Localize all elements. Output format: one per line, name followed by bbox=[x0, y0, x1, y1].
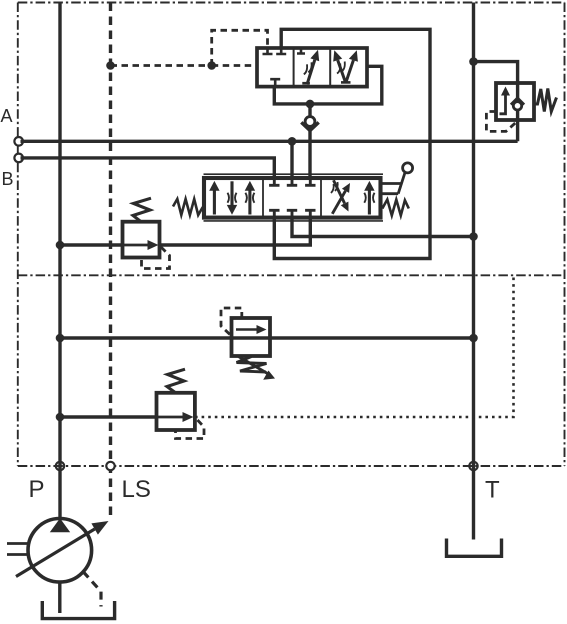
wire T line vertical bbox=[472, 3, 475, 540]
reducing valve PV3 arrow bbox=[183, 412, 194, 422]
relief valve RV pilot line bbox=[486, 112, 515, 132]
wire check valve to main valve port 3 bbox=[308, 104, 311, 179]
pilot valve V1 blocked port b1 bbox=[297, 49, 305, 54]
main valve V2 port stubs bottom bbox=[269, 210, 315, 216]
pilot valve V1 cell c throttle ticks bbox=[337, 62, 345, 74]
main valve V2 cell c cross arrow down bbox=[334, 180, 345, 203]
main valve V2 lever knob bbox=[403, 163, 413, 173]
reducing valve PV2 pilot line bbox=[221, 308, 242, 337]
pilot line junction loop to pilot valve top port bbox=[212, 30, 268, 65]
compensator CP1 spring bbox=[133, 198, 151, 222]
port LS circle bbox=[106, 462, 114, 470]
main valve V2 left spring bbox=[173, 199, 203, 215]
reducing valve PV3 body bbox=[157, 393, 195, 430]
wire pilot valve bottom loop bbox=[274, 66, 382, 104]
port A circle bbox=[14, 137, 23, 146]
node pilot branch junction bbox=[207, 61, 216, 70]
port B circle bbox=[14, 154, 23, 163]
boundary right edge bbox=[564, 3, 566, 467]
pilot valve V1 blocked port a2 bbox=[276, 49, 286, 54]
pump PU case drain line bbox=[83, 572, 101, 607]
main valve V2 cell c arrow up bbox=[368, 190, 371, 215]
main valve V2 right spring bbox=[382, 200, 409, 216]
tank symbol T side bbox=[447, 539, 502, 557]
tank symbol pump side bbox=[42, 601, 114, 619]
wire pilot valve top port to main valve bottom port 1 bbox=[274, 29, 430, 258]
compensator CP1 through line bbox=[123, 244, 150, 247]
pump PU outflow triangle bbox=[50, 518, 70, 532]
main valve V2 cell a orifice marks around arrow 2 bbox=[228, 193, 237, 203]
pilot line junction to pilot valve left end bbox=[212, 64, 258, 67]
node pilot supply junction bbox=[306, 100, 315, 109]
boundary top edge bbox=[18, 2, 565, 4]
wire reducing valve 3 output dotted bbox=[195, 278, 514, 418]
node A line to port 2 junction bbox=[288, 137, 297, 146]
wire LS line vertical (pilot) bbox=[109, 3, 112, 517]
relief valve RV spring bbox=[534, 89, 557, 112]
node T relief branch junction bbox=[469, 57, 478, 66]
boundary bottom edge bbox=[18, 465, 565, 467]
reducing valve PV3 pilot line bbox=[176, 420, 205, 439]
svg-text:P: P bbox=[29, 476, 45, 503]
main valve V2 lever arm bbox=[398, 173, 405, 194]
reducing valve PV3 through line bbox=[157, 416, 189, 419]
pilot valve V1 cell c V-arrows bbox=[338, 60, 354, 83]
reducing valve PV3 spring bbox=[167, 369, 185, 393]
node P to valve 2 junction bbox=[56, 334, 65, 343]
main valve V2 lever link lines bbox=[382, 184, 401, 194]
main valve V2 body bbox=[204, 178, 381, 218]
main valve V2 proportional stroke lines bbox=[204, 174, 384, 221]
port P circle bbox=[56, 462, 64, 470]
svg-text:A: A bbox=[1, 106, 13, 126]
svg-text:B: B bbox=[2, 169, 14, 189]
pilot valve V1 cell dividers bbox=[294, 48, 331, 87]
relief valve RV check seat bbox=[511, 98, 524, 105]
compensator CP1 body bbox=[123, 222, 160, 258]
reducing valve PV2 body bbox=[232, 318, 271, 356]
wire B line to main valve port 1 bbox=[21, 158, 275, 179]
pilot valve V1 blocked port a3 bottom bbox=[270, 79, 280, 85]
wire P to compensator 1 bbox=[60, 243, 123, 246]
wire A line to main valve port 2 bbox=[290, 141, 293, 179]
pump PU suction line bbox=[58, 581, 61, 613]
pilot valve V1 cell b arrow bbox=[307, 60, 315, 85]
node P to valve 3 junction bbox=[56, 413, 65, 422]
relief valve RV internal arrow bbox=[500, 93, 506, 114]
wire compensator 1 to main valve bottom port 3 bbox=[160, 217, 311, 245]
reducing valve PV2 arrow bbox=[236, 328, 259, 331]
main valve V2 cell dividers bbox=[263, 178, 321, 218]
main valve V2 port stubs top bbox=[269, 179, 315, 185]
main valve V2 cell c throttle ticks bbox=[331, 182, 338, 193]
pilot line LS to junction bbox=[111, 64, 212, 67]
node LS pilot junction bbox=[106, 61, 115, 70]
node T return junction bbox=[469, 232, 478, 241]
pilot valve V1 body bbox=[257, 48, 367, 87]
compensator CP1 pilot line bbox=[142, 247, 170, 269]
relief valve RV check ball bbox=[513, 102, 521, 110]
pilot valve V1 cell b throttle ticks bbox=[304, 62, 312, 74]
check valve CV1 ball bbox=[305, 117, 315, 127]
compensator CP1 arrow bbox=[148, 240, 159, 250]
main valve V2 cell a arrow 2 down bbox=[230, 181, 233, 206]
wire P line vertical bbox=[58, 3, 61, 519]
port T circle bbox=[469, 462, 477, 470]
boundary section divider bbox=[18, 274, 565, 276]
node valve 2 to T junction bbox=[469, 334, 478, 343]
wire T branch to relief valve bbox=[474, 62, 518, 142]
node P to compensator 1 junction bbox=[56, 241, 65, 250]
main valve V2 cell c orifice marks bbox=[364, 193, 374, 203]
svg-text:T: T bbox=[485, 477, 500, 504]
pump PU variable displacement arrow bbox=[16, 529, 95, 577]
pump PU drive shaft bbox=[7, 544, 28, 555]
main valve V2 cell a orifice marks around arrow 3 bbox=[245, 193, 254, 203]
check valve CV1 seat bbox=[301, 122, 318, 130]
main valve V2 cell a arrow 1 up bbox=[213, 190, 216, 215]
svg-text:LS: LS bbox=[122, 476, 151, 503]
main valve V2 cell a arrow 3 up bbox=[248, 190, 251, 215]
boundary left edge bbox=[17, 3, 19, 467]
reducing valve PV2 adjustable spring bbox=[237, 357, 267, 373]
wire main valve bottom port 2 to T bbox=[292, 217, 474, 237]
wire P to reducing valve 3 bbox=[60, 415, 157, 418]
relief valve RV body bbox=[496, 83, 534, 120]
wire P to reducing valve 2 to T bbox=[60, 336, 474, 339]
wire A line horizontal bbox=[21, 140, 518, 143]
main valve V2 cell c cross arrow up bbox=[332, 191, 345, 214]
pilot valve V1 blocked port a1 bbox=[263, 49, 273, 54]
pump PU circle bbox=[28, 519, 92, 583]
